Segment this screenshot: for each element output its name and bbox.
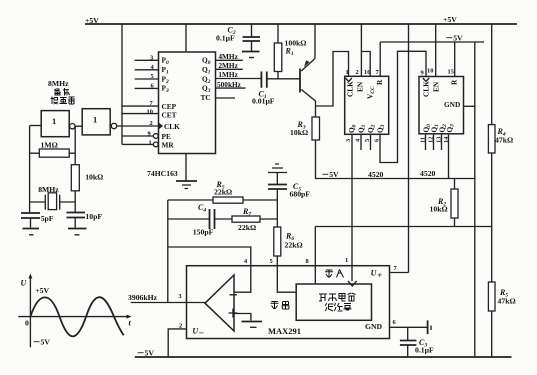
capacitor C2 0.1uF [216,24,260,51]
resistor R1 100k [274,24,306,79]
wire inverter1 input [30,125,42,127]
wire +5V to 4520#1 EN [360,24,362,76]
4520#2 pin numbers top [421,68,454,77]
svg-text:0.01μF: 0.01μF [252,97,275,106]
4520#2 pin labels rotated [422,78,459,97]
svg-text:22kΩ: 22kΩ [214,188,232,197]
wire pin8 into filter [314,227,316,285]
svg-text:2MHz: 2MHz [218,61,238,70]
-5V top line [380,34,484,43]
svg-text:1MHz: 1MHz [218,70,238,79]
wire pin7 out [390,272,409,274]
svg-text:22kΩ: 22kΩ [285,241,303,250]
decoupling element right of pin6 [427,320,429,334]
svg-text:4520: 4520 [420,169,436,178]
svg-text:－5V: －5V [137,349,155,358]
svg-text:0.1μF: 0.1μF [216,34,235,43]
svg-text:PE: PE [162,132,171,141]
svg-text:3: 3 [178,293,181,300]
svg-text:CET: CET [162,111,177,120]
crystal 8MHz [30,185,76,210]
transistor Q1 PNP [300,24,316,117]
IC 74HC163 box [159,52,216,154]
ground under 10pF [68,228,87,230]
svg-text:74HC163: 74HC163 [147,169,178,178]
-5V bottom rail [135,349,512,358]
pin P3 [135,83,169,95]
svg-text:1: 1 [346,69,349,76]
svg-text:TC: TC [201,93,211,102]
switched capacitor filter inner box [296,284,371,320]
4520#1 Q output labels rotated [347,124,386,133]
pin Q2 output 1MHz wire to C1 [202,70,261,85]
wire +5V drop to MAX291 pin7 [408,24,410,273]
sine waveform [30,297,123,336]
IC 4520 #1 box [345,76,389,134]
wire 4520#1 Q0 down to MAX291 pin1 [351,134,353,265]
wire input signal to pin3 [131,302,205,304]
svg-text:CLK: CLK [164,122,180,131]
svg-text:MR: MR [162,141,175,150]
wire 4520#1 Q2 stub [370,134,372,150]
label input (Chinese) [325,270,344,278]
IC MAX291 box [187,266,390,339]
wire pin1 clock into filter with arrow [348,266,357,286]
pin P1 [135,64,169,76]
node right oscillator column [74,126,76,213]
-5V mid distribution line [315,170,475,179]
svg-text:8MHz: 8MHz [48,79,69,88]
svg-text:5: 5 [270,258,273,265]
wire feedback to MAX291 pin4 [168,247,251,266]
4520#1 pin numbers top [346,69,380,76]
svg-text:EN: EN [356,81,365,92]
wire collector elbow to 4520#1 CLK [316,52,349,107]
svg-text:GND: GND [444,100,460,109]
svg-text:1: 1 [52,116,56,126]
label 8MHz crystal oscillator (Chinese) [48,79,75,104]
4520#1 pin numbers bottom rotated [345,138,381,142]
capacitor C4 150pF [168,203,215,237]
svg-text:5pF: 5pF [41,214,54,223]
IC 4520 #2 box [419,77,464,134]
resistor R2 10k [430,179,459,227]
ground op-amp [242,321,263,323]
svg-text:10: 10 [427,68,433,75]
wire +5V drop to 74HC163 control pins [121,24,123,144]
node left oscillator column [29,126,31,213]
capacitor C5 680pF [268,182,310,227]
wire pin2 to -5V rail [168,329,186,357]
wire pin6 out [390,326,428,328]
pin PE with bubble [122,131,171,142]
svg-text:1: 1 [345,257,348,264]
svg-text:0: 0 [25,319,29,328]
wire noninverting input to ground [234,314,251,321]
pin CEP [122,100,177,111]
wire Vcc stub 4520#1 [361,52,370,77]
svg-text:16: 16 [364,69,371,76]
label output (Chinese) [271,301,290,309]
ground under 74HC163 [176,154,197,189]
svg-text:150pF: 150pF [193,228,214,237]
svg-text:3906kHz: 3906kHz [128,293,158,302]
wire +5V to 4520#2 EN [435,24,437,77]
svg-text:4520: 4520 [368,170,384,179]
pin P0 [135,55,169,67]
svg-text:9: 9 [421,70,424,77]
ground above C5 [268,164,287,185]
svg-text:MAX291: MAX291 [268,326,301,336]
pin CLK with edge triangle [150,120,181,131]
ground under C2 [242,51,260,53]
svg-text:680pF: 680pF [290,190,311,199]
wire output feedback horizontal [315,226,491,228]
wire -5V column down to bottom rail [474,42,476,357]
wire pin4 to inverting input [234,266,251,293]
wire inverter2 output to CLK [117,125,159,127]
svg-text:47kΩ: 47kΩ [498,297,516,306]
pin P2 [135,73,169,85]
svg-text:3: 3 [345,139,352,142]
pin CET [122,109,177,120]
svg-text:+5V: +5V [35,286,49,295]
svg-text:2: 2 [150,120,153,127]
svg-text:1: 1 [149,140,152,147]
svg-text:EN: EN [432,81,441,92]
capacitor 5pF [21,213,54,228]
node feedback left column [167,200,169,303]
4520#2 pin numbers bottom rotated [420,136,451,143]
wire C1 to base node [267,78,300,80]
capacitor 10pF [67,212,103,228]
svg-text:+5V: +5V [85,16,99,25]
svg-text:CLK: CLK [422,81,431,97]
resistor R3 10k [290,117,320,179]
label switched-capacitor filter (Chinese) [319,293,356,311]
resistor R4 47k [488,24,513,282]
svg-text:500kHz: 500kHz [217,80,242,89]
wire inverter1 output to inverter2 [75,125,82,127]
svg-text:－5V: －5V [33,338,51,347]
svg-text:0.1μF: 0.1μF [415,346,434,355]
resistor R7 22k [215,207,278,232]
svg-text:3: 3 [150,55,153,62]
inverter gate U1b [82,109,117,135]
op-amp U2 [205,275,238,331]
wire 4520#1 Q3 to 4520#2 CLK [380,51,426,162]
resistor 1MΩ [30,141,76,158]
wire 4520#1 R pin to -5V line [379,42,381,76]
pin MR with bubble [122,140,174,150]
+5V rail [85,15,517,25]
4520#1 pin labels rotated [346,78,385,99]
svg-text:10pF: 10pF [85,212,102,221]
svg-text:47kΩ: 47kΩ [495,136,513,145]
wire 4520#2 Q2 stub [441,134,443,150]
wire 4520#1 Q1 stub [360,134,362,150]
svg-text:10kΩ: 10kΩ [430,205,448,214]
4520#2 Q output labels rotated [422,124,456,133]
wire 4520#2 GND pin to -5V column [464,105,475,107]
resistor R6 22k [274,227,303,266]
capacitor C3 0.1uF [400,327,434,357]
wire 4520#2 Q3 to -5V line [448,134,450,179]
svg-text:1: 1 [93,115,97,125]
resistor 10kΩ [71,165,103,191]
pin Q3 output 500kHz [202,80,246,94]
svg-text:8: 8 [306,258,309,265]
svg-text:CLK: CLK [346,81,355,97]
svg-text:4MHz: 4MHz [218,52,238,61]
svg-text:R: R [450,79,459,85]
inverter gate U1a [41,111,75,137]
svg-text:+5V: +5V [443,15,457,24]
svg-text:1MΩ: 1MΩ [41,141,58,150]
pin Q0 output 4MHz [202,52,243,66]
wire +5V drop to 74HC163 Vcc [185,24,187,52]
svg-text:10kΩ: 10kΩ [85,173,103,182]
svg-text:15: 15 [448,69,454,76]
svg-text:5: 5 [151,73,154,80]
svg-text:22kΩ: 22kΩ [238,223,256,232]
ground under 5pF [23,228,40,230]
svg-text:2: 2 [356,69,359,76]
svg-text:GND: GND [365,322,383,331]
resistor R5 47k lower right [488,282,515,357]
wire 4520#2 Q0 stub [425,134,427,150]
svg-text:－5V: －5V [322,170,340,179]
wire 4520#2 Q1 stub [433,134,435,150]
wire pin5 into filter [277,266,296,293]
sine plot axes [18,274,131,348]
svg-text:－5V: －5V [446,34,464,43]
wire -5V to 4520#2 R [454,42,456,77]
pin TC [201,93,236,102]
svg-text:10: 10 [147,109,153,116]
svg-text:R: R [375,79,384,85]
svg-text:10kΩ: 10kΩ [290,128,308,137]
resistor R5 22k [168,180,277,203]
capacitor C1 0.01uF coupling [252,72,275,106]
pin Q1 output 2MHz [202,61,243,76]
